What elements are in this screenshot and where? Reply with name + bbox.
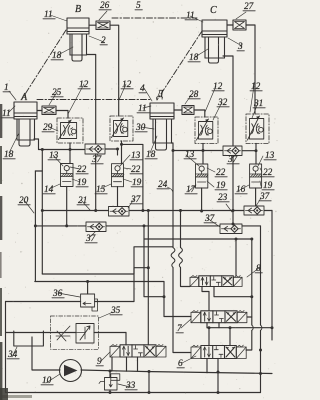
svg-text:А: А — [20, 92, 28, 103]
throttle-check unit 12a — [110, 116, 133, 141]
check valve unit 37-5 — [244, 206, 264, 215]
wire hose squiggle B — [179, 248, 183, 268]
throttle-check unit 31 — [246, 114, 269, 144]
check valve unit 37-6 — [220, 224, 242, 234]
wire tank to pump — [32, 337, 60, 370]
wire valve8 feed — [235, 239, 237, 276]
wire bus node A — [39, 149, 86, 151]
wire line24 top — [172, 151, 174, 248]
scan edge artifacts — [0, 104, 32, 400]
wire big L outer — [35, 282, 164, 317]
wire bottom frame — [6, 302, 261, 393]
wire check37a out — [105, 149, 118, 155]
linkage diagonal B-A — [22, 30, 66, 99]
wire v9 bottom 2 — [137, 357, 139, 371]
wire bus 23 right — [242, 225, 261, 227]
wire v6 top stub2 — [208, 328, 210, 346]
wire v6 bottom 1 — [206, 359, 208, 373]
wire hop 251 — [252, 325, 254, 330]
wire relief line — [6, 332, 127, 334]
wire drain drop — [148, 372, 150, 393]
wire 36 line — [6, 301, 135, 303]
pilot cylinder 17 — [196, 164, 208, 188]
wire bus 21 right — [264, 210, 272, 212]
wire C bottom to check37b — [223, 56, 233, 146]
wire hose squiggle A — [171, 248, 175, 268]
wire pump out — [81, 370, 272, 374]
wire v8 bottom 2 — [214, 287, 252, 297]
wire v7 right port — [247, 316, 252, 318]
cylinder C — [202, 20, 227, 63]
wire line to v9 — [147, 211, 149, 345]
directional valve 7 — [191, 311, 247, 323]
wire left jog — [35, 170, 42, 172]
wire valve25 to unit29 — [56, 111, 68, 119]
wire D bottom to line24 — [171, 143, 173, 151]
throttle-check unit 32 — [195, 117, 218, 144]
wire bus 239 — [144, 238, 252, 240]
wire v9 top left — [125, 333, 127, 345]
wire 36 top stub — [87, 282, 89, 295]
wire right frame upper — [271, 211, 273, 341]
wire cyl17 down — [201, 188, 203, 211]
wire cyl15 down — [117, 187, 119, 207]
wire valve27 to unit31 — [246, 25, 255, 114]
pilot cylinder 14 — [61, 164, 74, 187]
wire bus 23 left — [35, 225, 86, 227]
wire right frame — [260, 226, 262, 393]
check valve unit 37-4 — [86, 222, 106, 232]
check valve unit 37-2 — [223, 146, 242, 156]
valve 27 (box with cross) — [233, 20, 246, 30]
wire check37a down — [95, 154, 97, 211]
wire filter drop — [109, 371, 111, 393]
cylinder D — [150, 103, 174, 150]
wire D bus to check37b — [173, 150, 223, 152]
wire cyl16 down — [255, 188, 257, 206]
wire check37b out — [242, 150, 256, 152]
wire left drop 20 — [41, 150, 43, 275]
pump 10 — [60, 360, 82, 382]
wire loop 36 — [134, 247, 173, 302]
cylinder B — [67, 18, 89, 61]
wire D head to valve28 — [174, 109, 182, 111]
svg-text:В: В — [75, 4, 81, 15]
wire v9 sol drop — [111, 357, 113, 371]
throttle-check unit 29 — [57, 118, 83, 143]
wire bus 23 mid — [106, 225, 220, 227]
wire bus 21 left — [42, 210, 108, 212]
label leaders — [50, 15, 67, 21]
directional valve 6 — [191, 345, 246, 358]
wire unit12 branch — [122, 144, 143, 210]
wire bus 327 — [207, 327, 272, 329]
valve 25 (box with cross) — [42, 106, 56, 115]
pilot cylinder 15 — [112, 164, 124, 187]
wire unit31 to cyl16 — [255, 144, 257, 165]
relief valve unit 35 — [51, 316, 99, 349]
check valve unit 37-1 — [85, 144, 105, 154]
wire cyl14 down — [66, 187, 68, 226]
tank 34 — [14, 331, 44, 346]
wire hop right frame — [261, 325, 263, 330]
wire hose drop B — [181, 211, 191, 287]
pilot cylinder 16 — [250, 164, 262, 188]
wire big L inner — [42, 268, 148, 274]
wire v8 bottom 1 — [202, 287, 209, 311]
drain valve 33 — [99, 374, 120, 390]
wire left drop 20b — [34, 171, 36, 282]
linkage diagonal C-D — [157, 31, 202, 100]
wire B bottom to check37a — [87, 55, 96, 145]
wire v9 bottom 1 — [126, 357, 128, 371]
svg-text:Д: Д — [156, 89, 164, 100]
wire valve26 to unit12 — [110, 25, 119, 116]
valve 28 (box with cross) — [182, 106, 194, 115]
wire v251 drop — [246, 239, 252, 350]
wire unit29 to cyl14 — [69, 143, 71, 164]
check valve unit 37-3 — [109, 207, 130, 217]
wire A bottom to bus — [34, 139, 39, 150]
valve 26 (box with cross) — [96, 21, 110, 30]
wire v7 left port — [164, 316, 191, 318]
svg-text:С: С — [210, 5, 217, 16]
linkage A-D horizontal — [37, 99, 150, 101]
wire B head to valve26 — [89, 24, 96, 26]
directional valve 9 — [110, 345, 166, 358]
wire line24 bot — [173, 268, 191, 353]
wire v7 bottom 2 — [218, 323, 220, 328]
pilot valve 36 — [81, 291, 98, 312]
wire bus 21 mid — [129, 210, 244, 212]
wire v6 top stub — [229, 328, 231, 346]
wire check37b down — [232, 156, 234, 225]
wire valve28 to unit32 — [194, 110, 205, 117]
directional valve 8 — [190, 276, 242, 287]
wire A head to valve25 — [37, 110, 42, 112]
wire unit12 to cyl15 — [121, 141, 123, 164]
wire C head to valve27 — [227, 24, 233, 26]
wire v6 bottom 2 — [217, 359, 219, 393]
junction dots — [41, 148, 44, 151]
linkage line 5 — [112, 17, 197, 19]
wire unit32 to cyl17 — [202, 144, 204, 165]
cylinder A — [14, 102, 37, 146]
wire v7 feed — [144, 226, 164, 297]
wire v7 bottom 1 — [206, 323, 208, 328]
